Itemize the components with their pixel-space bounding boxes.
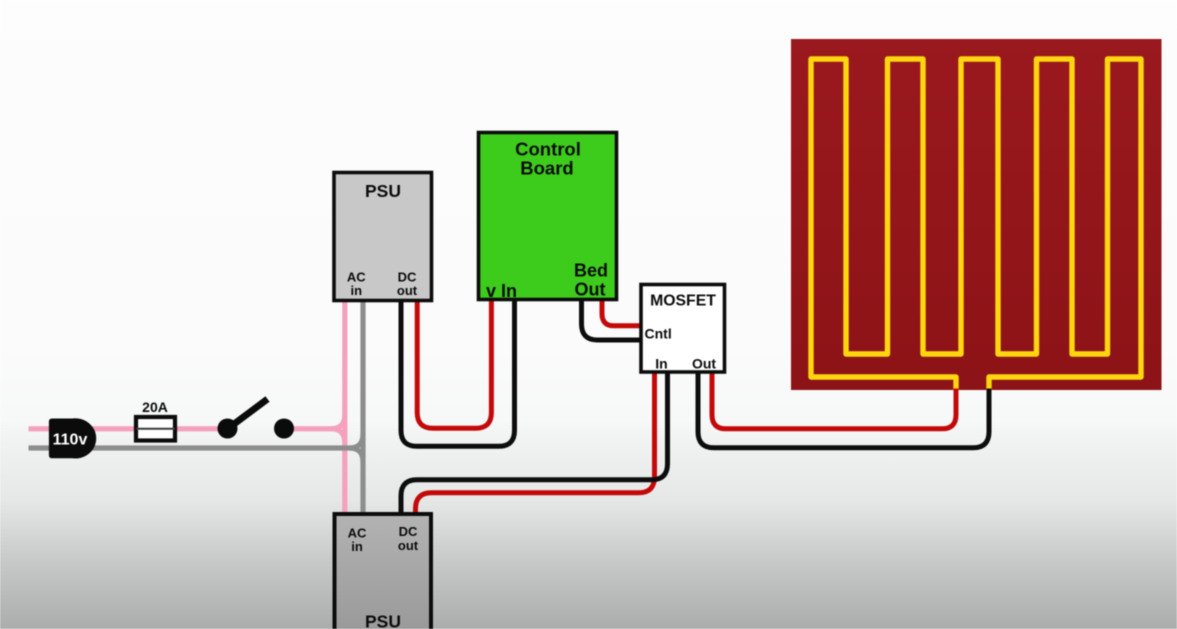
- svg-text:Board: Board: [520, 158, 573, 179]
- svg-text:PSU: PSU: [365, 612, 401, 629]
- svg-text:Out: Out: [575, 280, 606, 300]
- svg-text:DC: DC: [399, 524, 418, 539]
- svg-text:MOSFET: MOSFET: [650, 292, 716, 309]
- svg-text:20A: 20A: [142, 399, 168, 415]
- svg-text:Bed: Bed: [574, 261, 608, 281]
- svg-text:in: in: [351, 539, 363, 554]
- svg-text:Cntl: Cntl: [645, 326, 672, 342]
- svg-text:in: in: [351, 283, 363, 298]
- svg-text:110v: 110v: [53, 432, 88, 449]
- svg-text:out: out: [397, 283, 418, 298]
- svg-text:In: In: [655, 356, 667, 372]
- svg-text:out: out: [398, 538, 419, 553]
- svg-text:v In: v In: [486, 281, 517, 301]
- svg-text:PSU: PSU: [365, 181, 401, 201]
- svg-text:Control: Control: [515, 139, 581, 160]
- svg-text:Out: Out: [692, 356, 716, 372]
